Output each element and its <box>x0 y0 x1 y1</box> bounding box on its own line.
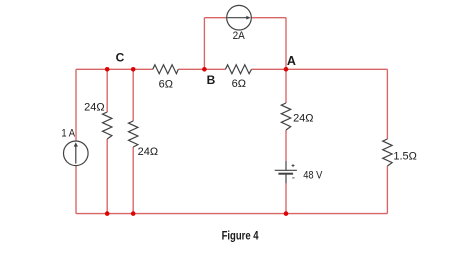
svg-text:6Ω: 6Ω <box>159 79 173 91</box>
svg-text:1 A: 1 A <box>61 128 75 140</box>
wire top rail left segment (C side) <box>76 68 153 70</box>
node dot bottom x=107 <box>105 211 110 216</box>
wire 2A loop top right segment <box>251 17 286 19</box>
node dot bottom x=286 <box>284 211 289 216</box>
wire bottom rail <box>76 213 387 215</box>
node dot top x=133 <box>131 67 136 72</box>
wire column x=133 upper <box>132 69 134 121</box>
svg-text:6Ω: 6Ω <box>232 78 246 90</box>
svg-text:24Ω: 24Ω <box>84 102 104 114</box>
current source 1A circle <box>64 141 89 166</box>
node dot top x=107 <box>105 67 110 72</box>
wire A column upper (A to 24ohm) <box>285 69 287 103</box>
wire top rail right segment (A to right corner) <box>252 68 388 70</box>
svg-text:2A: 2A <box>233 30 246 42</box>
wire column x=133 lower <box>132 147 134 214</box>
wire left rail upper <box>75 69 77 141</box>
resistor 24ohm (column x=133) <box>129 121 138 147</box>
node A dot <box>284 67 289 72</box>
battery plus mark <box>292 164 295 167</box>
svg-text:24Ω: 24Ω <box>138 146 158 158</box>
node B dot <box>202 67 207 72</box>
wire 2A loop top left segment <box>204 17 227 19</box>
battery V1 48V top stem <box>285 161 287 170</box>
battery V1 long plate <box>275 169 297 171</box>
resistor 6ohm (B-A) <box>225 65 251 74</box>
wire 2A loop right vertical (to node A) <box>285 18 287 70</box>
wire column x=107 upper <box>106 69 108 112</box>
current source 2A circle <box>227 5 252 30</box>
svg-text:24Ω: 24Ω <box>293 112 313 124</box>
svg-text:1.5Ω: 1.5Ω <box>393 151 417 163</box>
battery minus mark <box>292 177 294 179</box>
wire top rail between 6-ohm resistors (B region) <box>178 68 225 70</box>
svg-text:C: C <box>116 51 125 65</box>
resistor 1.5ohm (right rail) <box>383 139 392 166</box>
svg-text:48 V: 48 V <box>303 169 323 181</box>
wire left rail lower <box>75 166 77 214</box>
svg-text:A: A <box>287 54 296 68</box>
resistor 24ohm (A column) <box>281 103 290 130</box>
wire A column middle (24ohm to battery) <box>285 130 287 161</box>
node dot bottom x=133 <box>131 211 136 216</box>
current source 1A arrow <box>75 146 77 163</box>
resistor 6ohm (C-B) <box>153 65 179 74</box>
svg-text:B: B <box>207 73 216 87</box>
wire right rail lower <box>386 166 388 214</box>
battery V1 bottom stem <box>285 174 287 184</box>
battery V1 short plate <box>278 173 293 175</box>
wire 2A loop left vertical (from node B) <box>203 18 205 70</box>
resistor 24ohm (left column x=107) <box>103 112 112 139</box>
wire column x=107 lower <box>106 139 108 214</box>
wire A column lower (battery to bottom rail) <box>285 183 287 214</box>
wire right rail upper <box>386 69 388 139</box>
svg-text:Figure 4: Figure 4 <box>222 231 259 243</box>
current source 2A arrow <box>227 17 247 19</box>
